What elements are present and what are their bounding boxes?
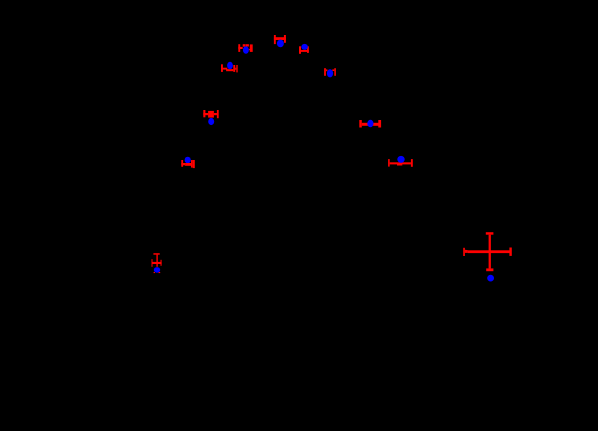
bond line of group H <box>362 123 379 126</box>
H crossbar nub right of group D <box>332 69 334 71</box>
N atom of group K <box>487 275 494 282</box>
N atom of group G <box>185 157 191 164</box>
N atom of group A <box>243 46 249 54</box>
group E: H-N-H left of core <box>221 64 238 72</box>
H atom left bar of group G <box>181 160 183 167</box>
N atom of group B <box>277 40 284 48</box>
vertical bond of group J <box>156 255 157 267</box>
right cap bar of group J <box>161 260 162 266</box>
H atom right bar of group D <box>334 68 336 76</box>
H crossbar of group C <box>299 50 309 52</box>
horizontal bond of group K <box>468 250 512 253</box>
vertical bond of group K <box>489 235 491 269</box>
top cap of group J <box>153 253 159 255</box>
H atom left bar of group E <box>221 64 223 72</box>
H atom right bar of group A <box>250 44 253 52</box>
N atom of group C <box>301 44 308 50</box>
group H: O=N=O style horizontal, mid-right <box>359 120 381 128</box>
top O cap of group K <box>486 232 494 235</box>
H atom right bar 2 of group G <box>193 160 195 168</box>
group D: NH2 right of core <box>324 68 336 76</box>
red top nub 1 of group A <box>243 44 246 47</box>
H atom right bar of group F <box>217 110 219 118</box>
red bar under N of group E <box>226 69 233 71</box>
H crossbar nub left of group D <box>326 69 328 71</box>
H atom right bar of group C <box>307 46 309 53</box>
left cap bar of group J <box>152 259 153 267</box>
O atom left bar of group I <box>388 159 390 167</box>
O atom right bar of group I <box>411 159 413 167</box>
left foot of group J <box>154 272 155 273</box>
red top nub 2 of group A <box>246 44 249 46</box>
left wedge of group K <box>465 250 468 253</box>
group B: NH top <box>274 35 286 44</box>
O atom block of group F <box>208 111 214 118</box>
H atom right bar of group B <box>284 35 286 43</box>
bottom O cap of group K <box>486 268 493 271</box>
H crossbar of group A <box>238 47 242 49</box>
H atom left bar of group F <box>203 110 205 117</box>
H crossbar / bond of group E <box>221 68 227 70</box>
red bar under N of group G <box>185 163 191 166</box>
H atom right bar 1 of group G <box>191 160 193 168</box>
group A: NH2 (amine) top-left of core <box>238 44 252 52</box>
H crossbar right of group F <box>214 113 217 115</box>
O atom right bar of group H <box>378 120 381 128</box>
right foot of group J <box>159 272 161 273</box>
H atom right bar 1 of group E <box>233 65 235 72</box>
H atom left bar of group B <box>274 35 276 44</box>
H atom left bar of group A <box>238 44 240 52</box>
group J: small oxo cross with N, lower-left <box>152 253 162 273</box>
group I: O=N=O style horizontal, lower-right <box>388 159 413 167</box>
horizontal crossbar of group J <box>152 262 162 264</box>
N atom of group D <box>327 69 333 77</box>
H atom left bar of group D <box>324 68 326 76</box>
H crossbar left of group F <box>203 113 208 115</box>
O atom left bar of group H <box>359 120 362 128</box>
H atom right bar 2 of group E <box>236 65 237 72</box>
H crossbar right of group E <box>235 68 236 70</box>
H atom left bar of group C <box>299 46 301 54</box>
H crossbar left of group G <box>181 163 185 165</box>
bond line of group I <box>390 162 411 164</box>
H crossbar of group B <box>274 37 286 40</box>
group C: NH top-right <box>299 46 309 54</box>
N atom of group F <box>208 118 214 125</box>
group F: H-O-H over N (hydroxyl amine) left <box>203 110 218 118</box>
red block under N of group I <box>397 163 402 166</box>
left O bar of group K <box>463 248 465 256</box>
N atom of group H <box>367 120 373 127</box>
N atom of group I <box>397 156 404 163</box>
group K: phosphate-like red cross with N below, right side <box>463 232 512 271</box>
N atom of group J <box>154 267 160 273</box>
right O cap of group K <box>509 248 511 256</box>
N atom of group E <box>227 62 233 69</box>
H crossbar nub right of group A <box>249 49 250 50</box>
